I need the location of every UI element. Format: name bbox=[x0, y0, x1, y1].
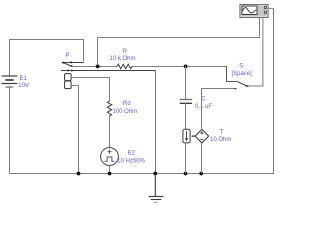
relay P contact: common line (top) bbox=[63, 62, 84, 64]
svg-text:10 k Ohm: 10 k Ohm bbox=[110, 56, 136, 62]
svg-text:S: S bbox=[239, 64, 243, 70]
wire sense box bottom to ground rail bbox=[185, 143, 187, 174]
wire T diamond top up and right to under S switch bbox=[202, 89, 237, 130]
svg-text:[Space]: [Space] bbox=[232, 71, 253, 77]
oscilloscope screen trace bbox=[243, 8, 257, 13]
ground rail (bottom) bbox=[10, 8, 274, 173]
resistor R zigzag bbox=[117, 64, 132, 68]
relay P coil upper box bbox=[65, 74, 72, 81]
CCVS T plus sign bbox=[200, 131, 203, 134]
wire battery bottom to ground rail bbox=[9, 87, 11, 174]
node junction at capacitor branch bbox=[184, 65, 188, 69]
wire battery top to relay common (top-left loop) bbox=[10, 40, 84, 77]
relay P middle throw contact dot bbox=[71, 65, 73, 67]
main wire relay to R bbox=[72, 66, 118, 68]
switch S arm (open, hanging down) bbox=[237, 82, 246, 86]
svg-text:10 Hz50%: 10 Hz50% bbox=[117, 158, 145, 164]
wire main to switch S left lead bbox=[227, 66, 238, 82]
wire switch S right lead up to scope bbox=[248, 18, 263, 87]
CCVS T minus sign bbox=[200, 138, 203, 140]
relay P lower throw line to ground bbox=[61, 70, 156, 72]
wire relay coil bottom terminal to ground rail bbox=[71, 86, 78, 174]
relay P coil lower box bbox=[65, 81, 72, 89]
main wire R to S switch bbox=[132, 66, 227, 68]
svg-text:0.1 uF: 0.1 uF bbox=[195, 104, 212, 110]
svg-text:E2: E2 bbox=[128, 151, 136, 157]
battery E1 bbox=[2, 76, 18, 87]
capacitor C bottom plate bbox=[180, 102, 192, 104]
junction dot ground symbol bbox=[153, 172, 157, 176]
relay P pivot dot bbox=[62, 62, 64, 64]
source E2 square wave glyph bbox=[105, 157, 115, 161]
oscilloscope ground stub to right rail riser bbox=[268, 7, 274, 9]
CCVS T dependent source diamond bbox=[195, 129, 209, 143]
relay P contact dot NC bbox=[70, 61, 72, 63]
relay P lower throw contact dots bbox=[67, 70, 69, 72]
wire E2 bottom to ground rail bbox=[109, 165, 111, 173]
CCVS T current-sense box bbox=[183, 129, 190, 143]
CCVS T link arrow (points left at box) bbox=[192, 135, 195, 137]
wire node B: R-left up and across top to scope channel terminal bbox=[98, 18, 260, 67]
wire node B down to capacitor C bbox=[185, 66, 187, 100]
svg-text:Rd: Rd bbox=[123, 101, 131, 107]
source E2 plus sign bbox=[108, 150, 112, 154]
wire relay coil top terminal to Rd branch bbox=[71, 78, 109, 102]
wire relay lower throw to ground rail bbox=[155, 71, 157, 174]
svg-text:T: T bbox=[220, 129, 224, 135]
junction dot E2 return bbox=[108, 172, 112, 176]
wire end tick under switch arm bbox=[235, 88, 237, 90]
svg-text:10 Ohm: 10 Ohm bbox=[210, 137, 231, 143]
svg-text:10V: 10V bbox=[18, 83, 29, 89]
svg-text:P: P bbox=[66, 53, 70, 59]
oscilloscope connector upper bbox=[264, 6, 267, 9]
junction dot T branch return bbox=[199, 172, 203, 176]
oscilloscope screen bbox=[242, 6, 257, 15]
node junction at R left bbox=[96, 65, 100, 69]
svg-text:E1: E1 bbox=[20, 76, 28, 82]
oscilloscope connector lower bbox=[264, 11, 267, 14]
switch S arm end dot bbox=[246, 85, 248, 87]
wire T diamond bottom to ground rail bbox=[201, 143, 203, 174]
resistor Rd zigzag (vertical) bbox=[107, 101, 111, 116]
source E2 circle (clock source) bbox=[101, 148, 119, 166]
switch S right contact dot bbox=[247, 85, 249, 87]
capacitor C top plate bbox=[180, 99, 192, 101]
svg-text:100 Ohm: 100 Ohm bbox=[113, 109, 138, 115]
relay P movable arm bbox=[63, 63, 72, 67]
svg-text:R: R bbox=[123, 49, 128, 55]
wire C bottom to sense box bbox=[185, 103, 187, 129]
junction dot C branch return bbox=[184, 172, 188, 176]
junction dot coil return bbox=[77, 172, 81, 176]
ground symbol bbox=[149, 174, 164, 203]
wire Rd bottom to E2 top bbox=[109, 116, 111, 148]
oscilloscope icon body bbox=[240, 5, 268, 18]
CCVS T sense arrow (down) bbox=[186, 131, 188, 138]
